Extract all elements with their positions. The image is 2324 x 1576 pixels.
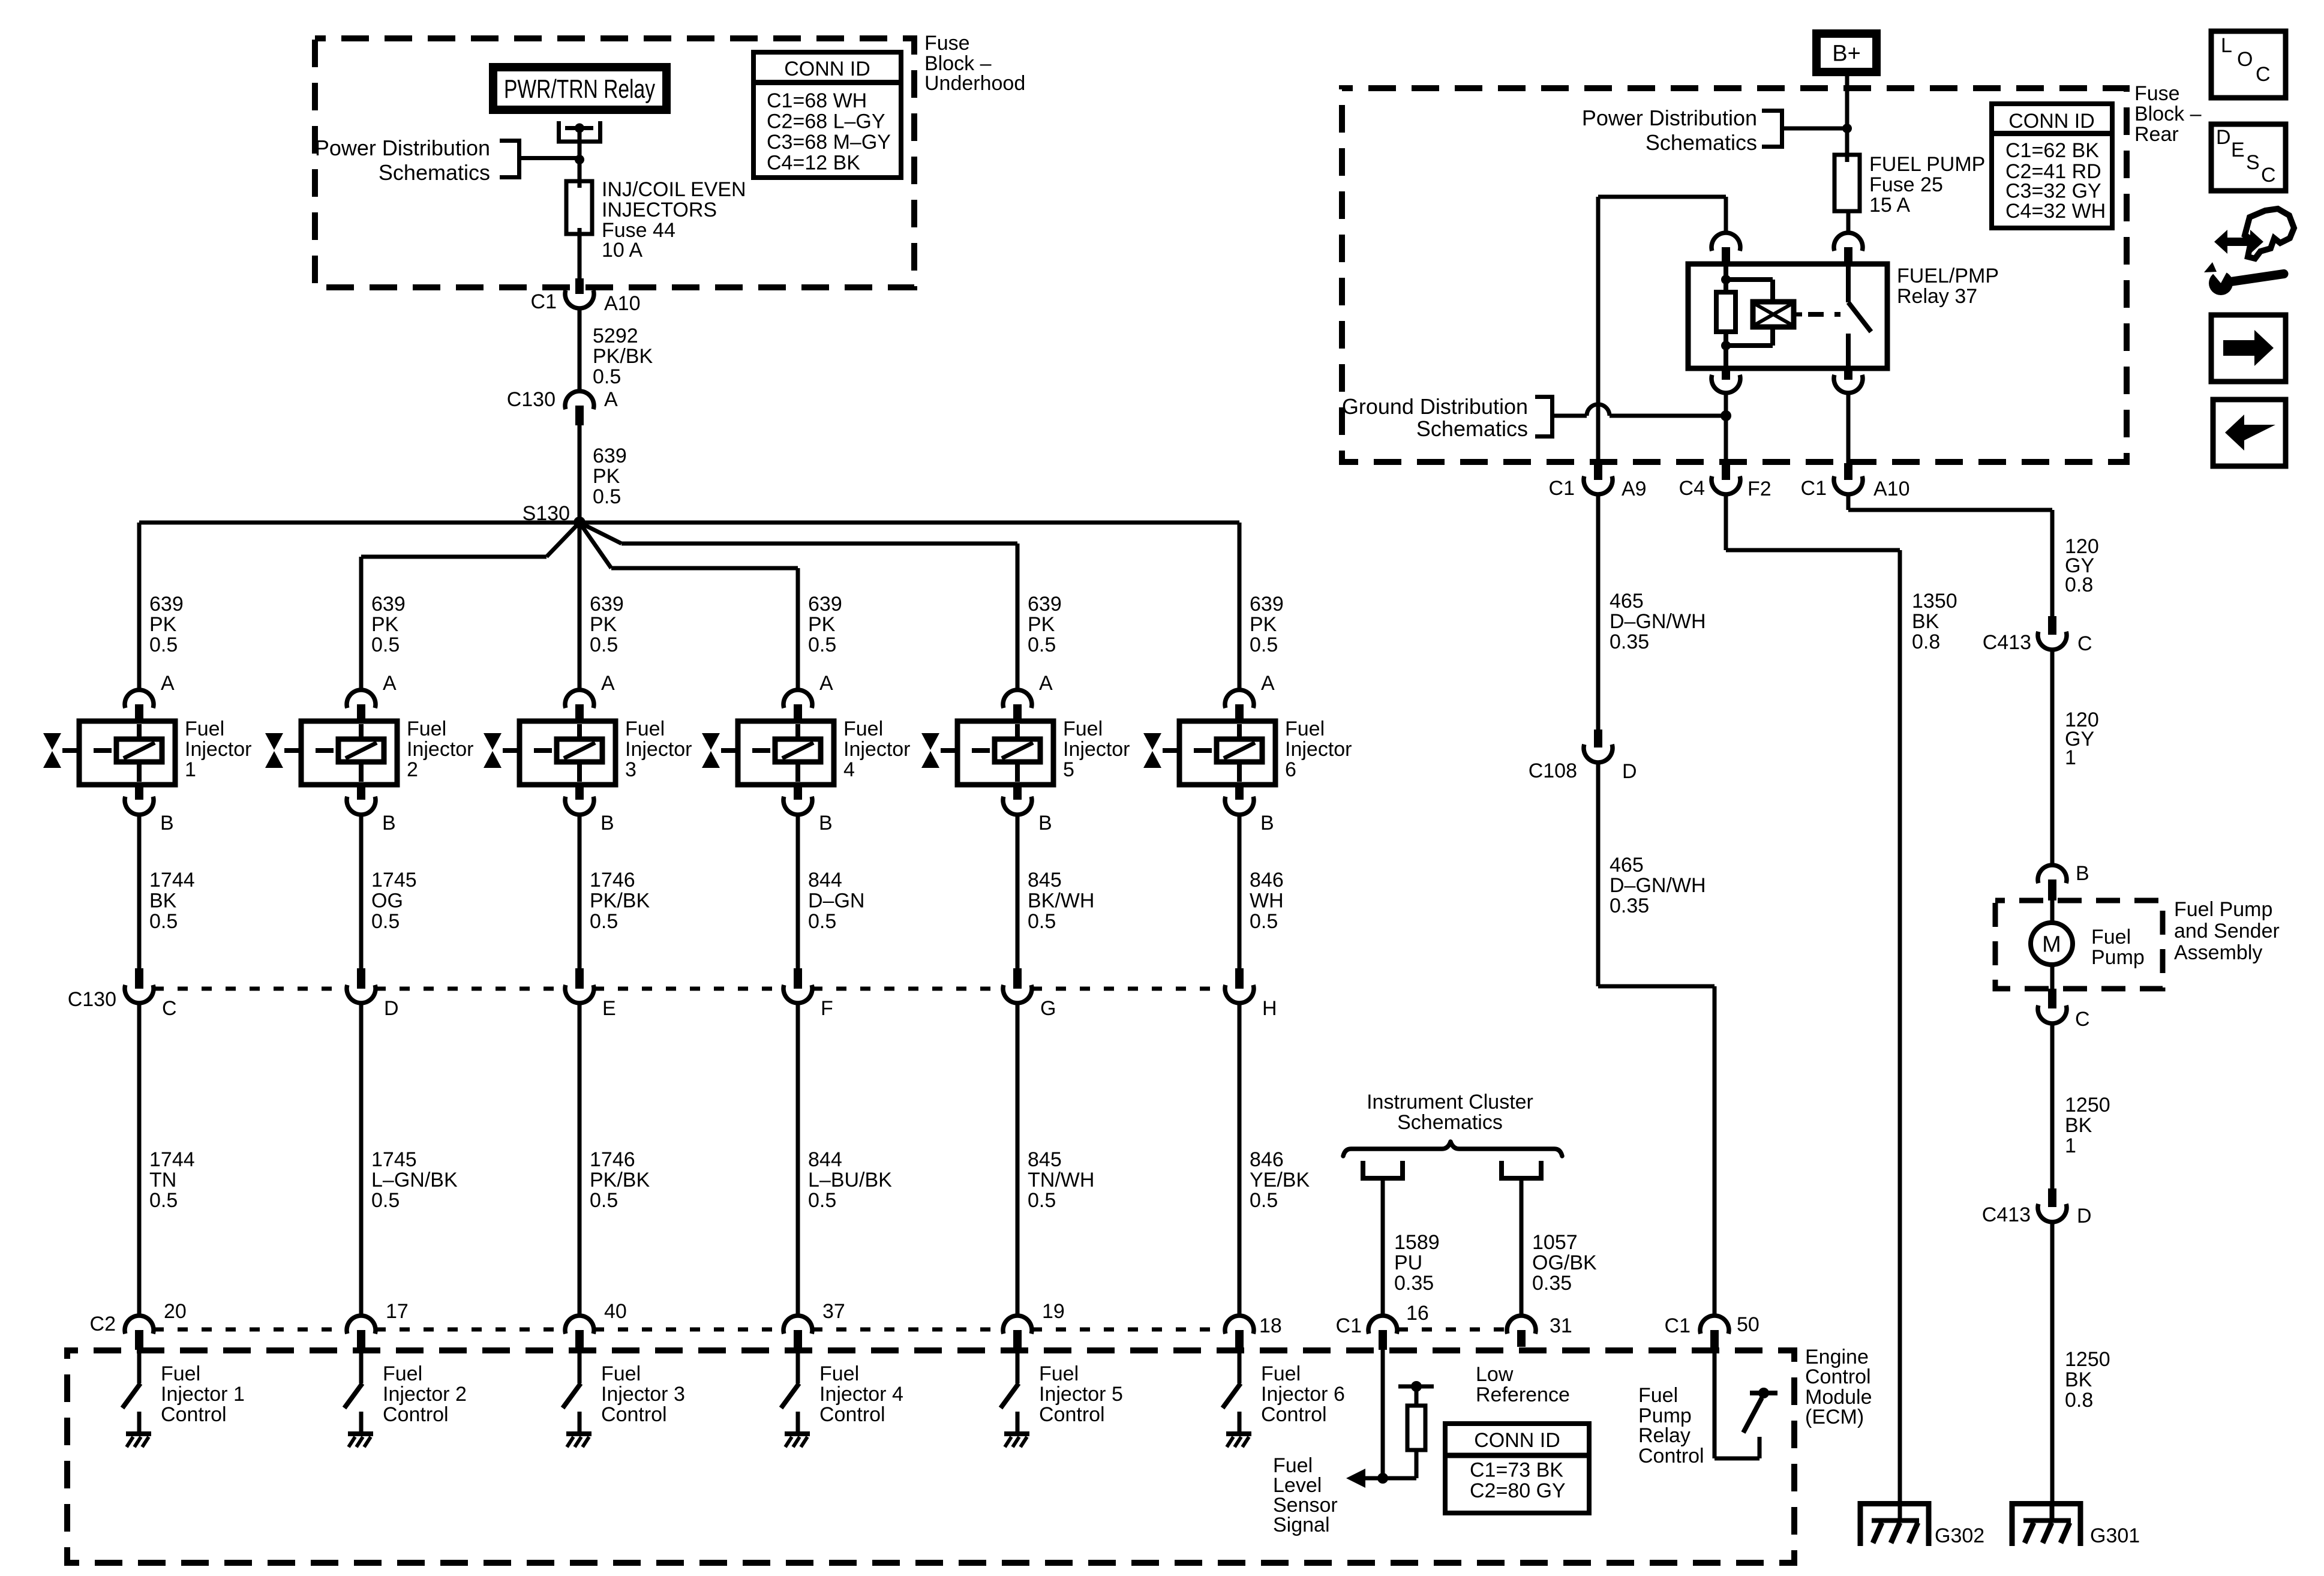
svg-text:C4=32 WH: C4=32 WH bbox=[2005, 200, 2106, 223]
svg-text:1350: 1350 bbox=[1912, 590, 1957, 613]
svg-text:Instrument Cluster: Instrument Cluster bbox=[1367, 1091, 1533, 1113]
svg-text:C: C bbox=[2261, 164, 2276, 187]
wire 846 WH 0.5 bbox=[1238, 815, 1242, 968]
svg-text:1745: 1745 bbox=[371, 869, 417, 891]
svg-text:50: 50 bbox=[1737, 1313, 1759, 1336]
svg-text:1: 1 bbox=[185, 758, 196, 781]
svg-text:16: 16 bbox=[1406, 1302, 1429, 1325]
valve symbol injector 4 bbox=[702, 733, 720, 768]
svg-text:0.8: 0.8 bbox=[1912, 631, 1940, 653]
svg-text:C: C bbox=[2077, 632, 2092, 655]
svg-text:PK: PK bbox=[1028, 613, 1055, 636]
svg-text:Fuse: Fuse bbox=[924, 32, 970, 55]
dashed line C2 row bbox=[154, 1328, 347, 1332]
svg-text:0.5: 0.5 bbox=[1250, 1189, 1278, 1212]
connector C1 pin A10 (underhood) bbox=[565, 278, 594, 308]
wire branch to injector 4 bbox=[580, 523, 798, 568]
svg-text:845: 845 bbox=[1028, 1148, 1062, 1171]
svg-text:and Sender: and Sender bbox=[2174, 920, 2280, 942]
svg-text:1057: 1057 bbox=[1532, 1231, 1578, 1254]
svg-text:Fuel: Fuel bbox=[1039, 1362, 1079, 1385]
svg-text:465: 465 bbox=[1610, 590, 1644, 613]
svg-text:0.5: 0.5 bbox=[1028, 634, 1056, 656]
fuel injector 3 bbox=[503, 721, 615, 785]
engine control module dashed box bbox=[67, 1350, 1794, 1563]
svg-text:A9: A9 bbox=[1622, 478, 1647, 500]
svg-text:Relay: Relay bbox=[1638, 1424, 1691, 1447]
svg-text:C: C bbox=[162, 997, 177, 1020]
svg-text:10 A: 10 A bbox=[602, 239, 642, 262]
svg-text:L–GN/BK: L–GN/BK bbox=[371, 1169, 458, 1191]
wire 844 D–GN 0.5 bbox=[796, 815, 800, 968]
svg-text:E: E bbox=[602, 997, 616, 1020]
wire fuse 25 to relay bbox=[1846, 211, 1851, 233]
svg-text:INJ/COIL EVEN: INJ/COIL EVEN bbox=[602, 178, 746, 201]
connector C2 pin 18 bbox=[1225, 1316, 1254, 1350]
connector relay 37 pin bottom-right bbox=[1834, 368, 1863, 393]
svg-text:Injector: Injector bbox=[1285, 738, 1352, 761]
relay K1 PWR/TRN Relay bbox=[493, 67, 666, 110]
svg-text:0.5: 0.5 bbox=[590, 910, 618, 933]
ground (injector 2 driver) bbox=[348, 1434, 373, 1447]
svg-text:B+: B+ bbox=[1832, 41, 1861, 67]
connector C108 pin D bbox=[1584, 730, 1613, 763]
svg-text:0.5: 0.5 bbox=[371, 634, 400, 656]
svg-text:C: C bbox=[2075, 1008, 2090, 1031]
wire relay left pin loop bbox=[1598, 197, 1726, 464]
svg-text:B: B bbox=[382, 812, 396, 834]
svg-text:YE/BK: YE/BK bbox=[1250, 1169, 1310, 1191]
svg-text:C1: C1 bbox=[1801, 477, 1827, 500]
dashed line C130 row bbox=[154, 987, 347, 991]
svg-text:844: 844 bbox=[808, 869, 842, 891]
svg-text:Injector 5: Injector 5 bbox=[1039, 1383, 1123, 1406]
svg-text:639: 639 bbox=[590, 593, 624, 616]
svg-text:0.5: 0.5 bbox=[149, 910, 178, 933]
svg-text:3: 3 bbox=[625, 758, 636, 781]
svg-text:0.5: 0.5 bbox=[1250, 910, 1278, 933]
svg-text:PK/BK: PK/BK bbox=[593, 345, 653, 368]
fuel injector 1 bbox=[62, 721, 175, 785]
connector C130 pin H bbox=[1225, 968, 1254, 1003]
relay 37 coil branch bbox=[1716, 266, 1773, 366]
svg-text:B: B bbox=[1260, 812, 1274, 834]
fuel injector 5 control switch bbox=[1001, 1350, 1019, 1434]
svg-text:Control: Control bbox=[601, 1403, 667, 1426]
ground (injector 6 driver) bbox=[1226, 1434, 1251, 1447]
connector relay 37 pin top-left bbox=[1712, 233, 1740, 266]
icon LOC bbox=[2211, 31, 2286, 98]
connector injector 6 pin B bbox=[1225, 785, 1254, 815]
connector C1 pin A9 bbox=[1584, 463, 1613, 494]
svg-text:F: F bbox=[821, 997, 833, 1020]
connector C2 pin 37 bbox=[783, 1316, 812, 1350]
svg-text:INJECTORS: INJECTORS bbox=[602, 199, 717, 221]
wire branch to injector 5 bbox=[580, 523, 1017, 544]
svg-text:L: L bbox=[2221, 34, 2232, 57]
relay K37 FUEL/PMP box bbox=[1688, 264, 1887, 368]
relay 37 solenoid symbol bbox=[1753, 302, 1802, 327]
wire 845 BK/WH 0.5 bbox=[1016, 815, 1020, 968]
svg-text:B: B bbox=[160, 812, 174, 834]
svg-text:CONN ID: CONN ID bbox=[784, 58, 870, 80]
svg-text:846: 846 bbox=[1250, 1148, 1284, 1171]
svg-text:0.5: 0.5 bbox=[593, 365, 621, 388]
svg-text:Signal: Signal bbox=[1273, 1514, 1330, 1536]
fuel pump motor M bbox=[2031, 900, 2073, 989]
wire branch to injector 2 bbox=[361, 523, 580, 557]
svg-text:846: 846 bbox=[1250, 869, 1284, 891]
svg-text:1744: 1744 bbox=[149, 869, 195, 891]
svg-text:31: 31 bbox=[1550, 1314, 1572, 1337]
connector C1 pin 16 bbox=[1368, 1316, 1397, 1350]
wire junction to bracket bbox=[521, 156, 580, 160]
svg-text:1746: 1746 bbox=[590, 869, 635, 891]
wire 639 PK 0.5 to injector 6 bbox=[1238, 523, 1242, 690]
svg-text:C4: C4 bbox=[1679, 477, 1705, 500]
fuel injector 1 control switch bbox=[122, 1350, 140, 1434]
svg-text:H: H bbox=[1262, 997, 1277, 1020]
connector C2 pin 20 bbox=[125, 1316, 154, 1350]
connector C413 pin C bbox=[2038, 616, 2067, 650]
svg-text:0.5: 0.5 bbox=[593, 485, 621, 508]
svg-text:0.5: 0.5 bbox=[590, 634, 618, 656]
connector C130 pin D bbox=[347, 968, 376, 1003]
svg-text:Schematics: Schematics bbox=[379, 160, 490, 185]
connector C1 pin A10 (rear) bbox=[1834, 463, 1863, 494]
svg-text:Fuel: Fuel bbox=[625, 718, 665, 740]
svg-text:C2=80 GY: C2=80 GY bbox=[1470, 1479, 1566, 1502]
svg-text:Relay 37: Relay 37 bbox=[1897, 285, 1977, 308]
svg-text:639: 639 bbox=[808, 593, 842, 616]
connector injector 1 pin B bbox=[125, 785, 154, 815]
svg-text:Power Distribution: Power Distribution bbox=[1582, 106, 1757, 130]
svg-text:BK: BK bbox=[1912, 610, 1939, 633]
wire relay right pin down bbox=[1846, 393, 1851, 463]
svg-text:B: B bbox=[2076, 862, 2089, 885]
fuel level sensor network bbox=[1346, 1350, 1434, 1488]
svg-text:C2: C2 bbox=[90, 1313, 116, 1335]
valve symbol injector 3 bbox=[484, 733, 502, 768]
svg-text:1: 1 bbox=[2065, 1134, 2076, 1157]
connector injector 4 pin B bbox=[783, 785, 812, 815]
wire 465 D-GN/WH lower bbox=[1598, 763, 1715, 1316]
wire ground distribution with hop bbox=[1554, 404, 1726, 416]
svg-text:1250: 1250 bbox=[2065, 1348, 2110, 1371]
svg-text:A: A bbox=[819, 672, 833, 695]
svg-text:40: 40 bbox=[604, 1300, 627, 1323]
svg-text:Rear: Rear bbox=[2134, 123, 2179, 146]
connector C130 pin A bbox=[565, 391, 594, 425]
wire B+ to junction bbox=[1845, 76, 1849, 155]
svg-text:C: C bbox=[2256, 63, 2271, 86]
connector injector 5 pin A bbox=[1003, 690, 1032, 721]
fuel injector 3 control switch bbox=[563, 1350, 581, 1434]
svg-text:Injector: Injector bbox=[185, 738, 252, 761]
wire 844 L–BU/BK 0.5 bbox=[796, 1003, 800, 1316]
svg-text:18: 18 bbox=[1259, 1314, 1282, 1337]
svg-text:Control: Control bbox=[383, 1403, 449, 1426]
wire 846 YE/BK 0.5 bbox=[1238, 1003, 1242, 1316]
svg-text:6: 6 bbox=[1285, 758, 1296, 781]
svg-text:Fuel: Fuel bbox=[161, 1362, 200, 1385]
svg-text:S: S bbox=[2246, 151, 2260, 174]
valve symbol injector 5 bbox=[921, 733, 939, 768]
svg-text:FUEL/PMP: FUEL/PMP bbox=[1897, 265, 1999, 287]
svg-text:Control: Control bbox=[1261, 1403, 1327, 1426]
ground (injector 3 driver) bbox=[566, 1434, 591, 1447]
wire 639 PK 0.5 main bbox=[578, 425, 582, 523]
svg-text:639: 639 bbox=[1250, 593, 1284, 616]
wire relay left pin down bbox=[1724, 393, 1728, 463]
svg-text:Ground Distribution: Ground Distribution bbox=[1342, 394, 1528, 419]
connector injector 6 pin A bbox=[1225, 690, 1254, 721]
svg-text:5292: 5292 bbox=[593, 325, 638, 347]
svg-text:FUEL PUMP: FUEL PUMP bbox=[1869, 153, 1985, 176]
svg-text:C413: C413 bbox=[1982, 1203, 2031, 1226]
icon arrow next bbox=[2211, 315, 2286, 382]
fuel injector 6 control switch bbox=[1223, 1350, 1241, 1434]
svg-text:Schematics: Schematics bbox=[1646, 130, 1757, 155]
svg-text:C130: C130 bbox=[68, 988, 116, 1011]
svg-text:Injector 6: Injector 6 bbox=[1261, 1383, 1345, 1406]
svg-text:Power Distribution: Power Distribution bbox=[315, 136, 490, 160]
svg-text:B: B bbox=[600, 812, 614, 834]
svg-text:0.35: 0.35 bbox=[1532, 1272, 1572, 1295]
svg-text:C1=73 BK: C1=73 BK bbox=[1470, 1458, 1563, 1481]
svg-text:A: A bbox=[1261, 672, 1275, 695]
svg-text:TN: TN bbox=[149, 1169, 176, 1191]
svg-text:Injector 4: Injector 4 bbox=[819, 1383, 903, 1406]
svg-text:BK: BK bbox=[2065, 1368, 2092, 1391]
svg-text:O: O bbox=[2237, 48, 2253, 71]
connector C2 pin 17 bbox=[347, 1316, 376, 1350]
connector injector 2 pin A bbox=[347, 690, 376, 721]
svg-text:C130: C130 bbox=[507, 388, 556, 411]
svg-text:PK: PK bbox=[590, 613, 617, 636]
svg-text:Fuel Pump: Fuel Pump bbox=[2174, 898, 2272, 921]
svg-text:Underhood: Underhood bbox=[924, 72, 1025, 95]
wire 1746 PK/BK 0.5 bbox=[578, 815, 582, 968]
instrument cluster connector (low reference) bbox=[1502, 1161, 1541, 1178]
svg-text:Fuel: Fuel bbox=[1285, 718, 1325, 740]
fuse F44 INJ/COIL EVEN INJECTORS bbox=[566, 181, 592, 234]
node junction power distribution bbox=[575, 155, 584, 164]
connector fuel pump pin B bbox=[2038, 865, 2067, 900]
svg-text:PK/BK: PK/BK bbox=[590, 889, 650, 912]
svg-text:0.5: 0.5 bbox=[149, 1189, 178, 1212]
svg-text:D: D bbox=[384, 997, 399, 1020]
svg-text:0.35: 0.35 bbox=[1394, 1272, 1434, 1295]
svg-text:C1: C1 bbox=[1549, 477, 1575, 500]
connector injector 2 pin B bbox=[347, 785, 376, 815]
svg-text:PK: PK bbox=[808, 613, 836, 636]
svg-text:0.35: 0.35 bbox=[1610, 894, 1649, 917]
wire 120 GY 1 bbox=[2050, 650, 2055, 865]
svg-text:TN/WH: TN/WH bbox=[1028, 1169, 1094, 1191]
svg-text:Block –: Block – bbox=[2134, 103, 2202, 125]
svg-text:Fuel: Fuel bbox=[1063, 718, 1103, 740]
svg-text:D: D bbox=[2216, 126, 2231, 149]
svg-text:Control: Control bbox=[1039, 1403, 1105, 1426]
valve symbol injector 1 bbox=[43, 733, 61, 768]
wire 639 PK 0.5 to injector 3 bbox=[578, 523, 582, 690]
svg-text:C3=32 GY: C3=32 GY bbox=[2005, 179, 2101, 202]
connector C1 pin 50 bbox=[1700, 1316, 1729, 1350]
svg-text:1589: 1589 bbox=[1394, 1231, 1440, 1254]
connector injector 3 pin B bbox=[565, 785, 594, 815]
ground (injector 1 driver) bbox=[126, 1434, 151, 1447]
svg-text:0.5: 0.5 bbox=[149, 634, 178, 656]
svg-text:5: 5 bbox=[1063, 758, 1074, 781]
svg-text:Fuse 25: Fuse 25 bbox=[1869, 173, 1943, 196]
connector C413 pin D bbox=[2038, 1188, 2067, 1222]
svg-text:E: E bbox=[2231, 139, 2245, 161]
svg-text:PU: PU bbox=[1394, 1251, 1422, 1274]
svg-text:Control: Control bbox=[161, 1403, 227, 1426]
svg-text:PK: PK bbox=[371, 613, 399, 636]
svg-text:0.35: 0.35 bbox=[1610, 631, 1649, 653]
wire 1744 TN 0.5 bbox=[137, 1003, 142, 1316]
svg-text:Injector: Injector bbox=[843, 738, 911, 761]
svg-text:C108: C108 bbox=[1529, 760, 1577, 782]
fuel pump and sender assembly dashed box bbox=[1995, 900, 2163, 989]
ground (injector 5 driver) bbox=[1004, 1434, 1029, 1447]
connector C130 pin G bbox=[1003, 968, 1032, 1003]
valve symbol injector 2 bbox=[265, 733, 283, 768]
svg-text:639: 639 bbox=[1028, 593, 1062, 616]
svg-text:C1=68 WH: C1=68 WH bbox=[767, 89, 867, 112]
svg-text:Injector: Injector bbox=[1063, 738, 1130, 761]
svg-text:Reference: Reference bbox=[1476, 1383, 1570, 1406]
connector C4 pin F2 bbox=[1712, 463, 1740, 494]
svg-text:Fuel: Fuel bbox=[407, 718, 446, 740]
svg-text:PK: PK bbox=[593, 465, 620, 488]
svg-text:Injector 1: Injector 1 bbox=[161, 1383, 245, 1406]
svg-text:844: 844 bbox=[808, 1148, 842, 1171]
svg-text:0.5: 0.5 bbox=[371, 1189, 400, 1212]
svg-text:F2: F2 bbox=[1747, 478, 1771, 500]
svg-text:A: A bbox=[604, 388, 618, 411]
svg-text:0.5: 0.5 bbox=[808, 1189, 836, 1212]
svg-text:Fuel: Fuel bbox=[2091, 926, 2131, 948]
wire splice bus bbox=[139, 521, 1239, 525]
svg-text:C1: C1 bbox=[1336, 1314, 1362, 1337]
wire 1589 PU 0.35 bbox=[1381, 1181, 1385, 1316]
svg-text:Schematics: Schematics bbox=[1416, 416, 1528, 441]
wire 1745 L–GN/BK 0.5 bbox=[359, 1003, 364, 1316]
svg-text:PK: PK bbox=[149, 613, 177, 636]
PWR/TRN relay contact terminals bbox=[557, 121, 602, 143]
svg-text:4: 4 bbox=[843, 758, 855, 781]
svg-text:37: 37 bbox=[822, 1300, 845, 1323]
svg-text:1745: 1745 bbox=[371, 1148, 417, 1171]
svg-text:639: 639 bbox=[371, 593, 406, 616]
connector C130 pin F bbox=[783, 968, 812, 1003]
svg-text:C4=12 BK: C4=12 BK bbox=[767, 151, 860, 174]
svg-text:Fuel: Fuel bbox=[185, 718, 224, 740]
svg-text:C1: C1 bbox=[531, 290, 557, 313]
svg-text:C1: C1 bbox=[1665, 1314, 1691, 1337]
svg-text:B: B bbox=[819, 812, 833, 834]
svg-text:PK/BK: PK/BK bbox=[590, 1169, 650, 1191]
connector C2 pin 40 bbox=[565, 1316, 594, 1350]
svg-text:Control: Control bbox=[1805, 1365, 1871, 1388]
wire 5292 PK/BK 0.5 bbox=[578, 308, 582, 391]
svg-text:A: A bbox=[601, 672, 615, 695]
svg-text:639: 639 bbox=[593, 445, 627, 467]
svg-text:D–GN: D–GN bbox=[808, 889, 864, 912]
connector C2 pin 19 bbox=[1003, 1316, 1032, 1350]
svg-text:M: M bbox=[2042, 932, 2061, 957]
svg-text:15 A: 15 A bbox=[1869, 194, 1910, 217]
fuel injector 2 control switch bbox=[344, 1350, 362, 1434]
svg-text:19: 19 bbox=[1042, 1300, 1065, 1323]
ground (injector 4 driver) bbox=[785, 1434, 810, 1447]
CONN ID table ECM bbox=[1445, 1424, 1589, 1513]
svg-text:Fuel: Fuel bbox=[1638, 1384, 1678, 1407]
wire 639 PK 0.5 to injector 4 bbox=[796, 568, 800, 690]
node ground distribution junction bbox=[1721, 410, 1731, 421]
svg-text:0.5: 0.5 bbox=[590, 1189, 618, 1212]
wire 1746 PK/BK 0.5 bbox=[578, 1003, 582, 1316]
svg-text:B: B bbox=[1038, 812, 1052, 834]
wire 1057 OG/BK 0.35 bbox=[1520, 1181, 1524, 1316]
icon arrow back bbox=[2213, 400, 2286, 466]
svg-text:OG: OG bbox=[371, 889, 403, 912]
svg-text:BK: BK bbox=[2065, 1114, 2092, 1137]
fuel injector 4 bbox=[721, 721, 834, 785]
icon service wrench bbox=[2204, 209, 2294, 295]
svg-text:D–GN/WH: D–GN/WH bbox=[1610, 874, 1706, 897]
svg-text:PWR/TRN Relay: PWR/TRN Relay bbox=[504, 74, 655, 104]
svg-text:Fuel: Fuel bbox=[383, 1362, 422, 1385]
battery feed B+ bbox=[1816, 34, 1876, 72]
svg-text:A: A bbox=[1039, 672, 1053, 695]
svg-text:0.5: 0.5 bbox=[1028, 1189, 1056, 1212]
svg-text:17: 17 bbox=[386, 1300, 409, 1323]
svg-text:0.5: 0.5 bbox=[1028, 910, 1056, 933]
svg-text:1250: 1250 bbox=[2065, 1094, 2110, 1116]
fuel injector 4 control switch bbox=[781, 1350, 799, 1434]
svg-text:D: D bbox=[1622, 760, 1637, 783]
wire 845 TN/WH 0.5 bbox=[1016, 1003, 1020, 1316]
connector C130 pin C bbox=[125, 968, 154, 1003]
svg-text:20: 20 bbox=[164, 1300, 187, 1323]
relay 37 actuation dashed link bbox=[1808, 312, 1840, 317]
svg-text:0.8: 0.8 bbox=[2065, 1389, 2093, 1412]
fuel injector 2 bbox=[284, 721, 397, 785]
connector C130 pin E bbox=[565, 968, 594, 1003]
wire junction to bracket (rear) bbox=[1784, 127, 1847, 131]
connector pin 31 bbox=[1507, 1316, 1536, 1347]
fuse F25 FUEL PUMP bbox=[1834, 155, 1860, 211]
svg-text:C3=68 M–GY: C3=68 M–GY bbox=[767, 131, 891, 154]
wire 1744 BK 0.5 bbox=[137, 815, 142, 968]
svg-text:Fuel: Fuel bbox=[843, 718, 883, 740]
svg-text:PK: PK bbox=[1250, 613, 1277, 636]
ground G301 bbox=[2012, 1503, 2080, 1546]
svg-text:D–GN/WH: D–GN/WH bbox=[1610, 610, 1706, 633]
svg-text:0.5: 0.5 bbox=[808, 910, 836, 933]
svg-text:Pump: Pump bbox=[2091, 946, 2145, 969]
fuse block rear dashed box bbox=[1342, 88, 2127, 462]
svg-text:G302: G302 bbox=[1935, 1524, 1984, 1547]
connector injector 5 pin B bbox=[1003, 785, 1032, 815]
wire 639 PK 0.5 to injector 2 bbox=[359, 557, 364, 690]
ground G302 bbox=[1860, 1503, 1929, 1546]
fuel pump relay control switch bbox=[1715, 1350, 1777, 1458]
